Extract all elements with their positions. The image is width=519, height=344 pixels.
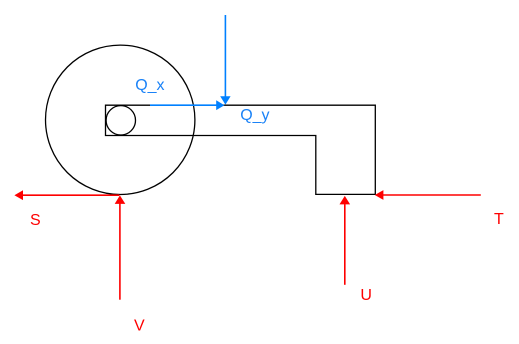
svg-text:S: S bbox=[30, 212, 41, 229]
small pin circle bbox=[106, 106, 135, 135]
force arrow V (red, upward) bbox=[115, 195, 126, 299]
svg-text:Q_y: Q_y bbox=[240, 107, 269, 124]
svg-text:Q_x: Q_x bbox=[135, 77, 164, 94]
svg-text:U: U bbox=[360, 287, 372, 304]
force arrow U (red, upward) bbox=[340, 196, 351, 285]
bracket outline bbox=[106, 105, 376, 194]
force arrow Q_y (blue, downward) bbox=[220, 15, 230, 105]
large disk circle bbox=[46, 45, 195, 194]
svg-text:V: V bbox=[134, 317, 145, 334]
force arrow S (red, leftward) bbox=[14, 190, 119, 200]
force arrow Q_x (blue, rightward) bbox=[150, 100, 224, 110]
svg-text:T: T bbox=[494, 211, 504, 228]
force arrow T (red, leftward) bbox=[375, 190, 481, 200]
